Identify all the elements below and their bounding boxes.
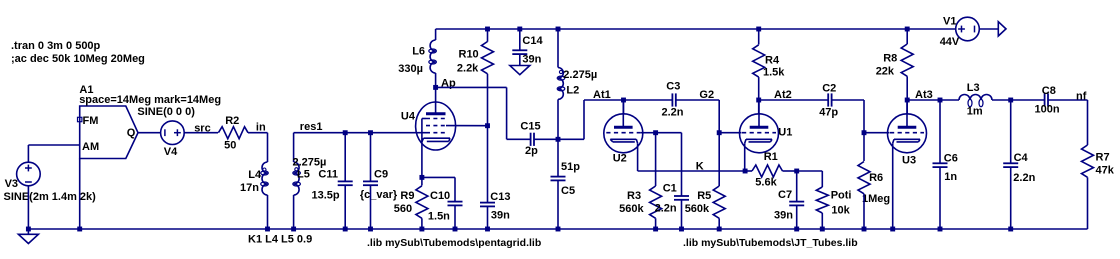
- svg-text:R1: R1: [764, 151, 778, 163]
- svg-text:V3: V3: [5, 178, 18, 190]
- wire C4 bottom lead: [1010, 167, 1012, 229]
- junction At2-U1 anode: [756, 98, 761, 103]
- wire C8 to nf corner: [1048, 99, 1088, 101]
- wire C6 top lead: [939, 100, 941, 163]
- wire tank to At1 horizontal: [558, 138, 584, 140]
- wire B+ top rail: [436, 28, 956, 30]
- wire R6 top lead: [863, 133, 865, 161]
- wire At3 to C6: [907, 99, 940, 101]
- resistor R1: [752, 165, 783, 177]
- wire C11 top lead: [344, 133, 346, 182]
- wire L2 top lead: [557, 29, 559, 68]
- svg-text:U4: U4: [401, 110, 416, 122]
- svg-text:src: src: [194, 123, 211, 135]
- wire G2 vertical: [718, 100, 720, 133]
- junction C6 top node: [938, 98, 943, 103]
- svg-text:1.5k: 1.5k: [763, 67, 785, 79]
- wire R9 bottom lead: [421, 218, 423, 229]
- wire L3 to C4 node: [992, 99, 1011, 101]
- wire C10 top lead: [454, 177, 456, 201]
- wire C10 bottom lead: [454, 205, 456, 229]
- junction C9-ground rail: [368, 227, 373, 232]
- svg-text:At2: At2: [774, 89, 792, 101]
- wire res1 rail: [294, 132, 426, 134]
- junction L3/C4/C8 node: [1008, 98, 1013, 103]
- resistor R5: [713, 186, 725, 218]
- triode U3: [888, 114, 927, 153]
- wire C4 top lead: [1010, 100, 1012, 163]
- wire C13 top lead: [487, 126, 489, 203]
- svg-text:R8: R8: [883, 53, 897, 65]
- wire At1: [584, 99, 624, 101]
- wire C6 bottom lead: [939, 167, 941, 229]
- wire ground rail: [28, 228, 1087, 230]
- svg-text:R7: R7: [1096, 152, 1110, 164]
- svg-text:39n: 39n: [774, 209, 793, 221]
- junction C5-ground rail: [556, 227, 561, 232]
- junction R9-ground rail: [419, 227, 424, 232]
- svg-text:R9: R9: [400, 190, 414, 202]
- wire L6 top lead: [435, 29, 437, 40]
- svg-text:V1: V1: [943, 16, 956, 28]
- potentiometer Poti: [816, 187, 828, 213]
- svg-text:.lib mySub\Tubemods\JT_Tubes.l: .lib mySub\Tubemods\JT_Tubes.lib: [683, 237, 858, 249]
- junction K node: [743, 169, 748, 174]
- svg-text:22k: 22k: [876, 66, 895, 78]
- svg-text:V4: V4: [164, 146, 178, 158]
- svg-text:50: 50: [224, 139, 236, 151]
- svg-text:1.5n: 1.5n: [428, 211, 450, 223]
- wire C3 to G2 corner: [676, 99, 719, 101]
- svg-text:39n: 39n: [522, 54, 541, 66]
- resistor R6: [858, 162, 870, 194]
- svg-text:2.2k: 2.2k: [457, 62, 479, 74]
- junction Ap node: [433, 85, 438, 90]
- resistor R7: [1082, 145, 1094, 177]
- capacitor C4: [1003, 162, 1018, 164]
- wire R1 right lead: [783, 170, 797, 172]
- wire R8 bottom lead: [906, 76, 908, 100]
- capacitor C6: [933, 162, 948, 164]
- wire L2 bottom lead: [557, 99, 559, 139]
- wire L5 bottom lead: [293, 195, 295, 229]
- wire C7 bottom lead: [796, 205, 798, 229]
- svg-text:G2: G2: [699, 89, 714, 101]
- junction C9-res1 rail: [368, 130, 373, 135]
- junction R4-top rail: [756, 27, 761, 32]
- svg-text:in: in: [256, 121, 266, 133]
- svg-text:C9: C9: [374, 169, 388, 181]
- resistor R2: [218, 127, 248, 139]
- svg-text:L3: L3: [967, 82, 980, 94]
- wire U4 anode lead: [435, 87, 437, 113]
- capacitor C5: [551, 176, 566, 178]
- wire V3 top lead: [27, 145, 29, 162]
- junction R3-ground rail: [653, 227, 658, 232]
- wire C11 bottom lead: [344, 185, 346, 229]
- resistor R9: [416, 186, 428, 219]
- wire C7 top lead: [796, 171, 798, 202]
- svg-text:2.2n: 2.2n: [1013, 172, 1035, 184]
- junction R10-top rail: [485, 27, 490, 32]
- junction R6-ground rail: [862, 227, 867, 232]
- wire L6 bottom lead: [435, 73, 437, 87]
- svg-text:{c_var}: {c_var}: [360, 189, 398, 201]
- wire At1 to C3: [624, 99, 673, 101]
- svg-text:C6: C6: [944, 153, 958, 165]
- wire C15 right lead: [534, 138, 558, 140]
- wire Q output: [138, 132, 161, 134]
- wire cathode to C10: [422, 176, 455, 178]
- wire R5 bottom lead: [718, 218, 720, 229]
- junction C11-res1 rail: [343, 130, 348, 135]
- resistor R3: [650, 186, 662, 218]
- wire R7 top lead: [1087, 100, 1089, 145]
- svg-text:C1: C1: [663, 182, 677, 194]
- capacitor C15: [530, 133, 532, 146]
- svg-text:Poti: Poti: [831, 189, 852, 201]
- wire U1 cathode lead: [744, 143, 746, 171]
- svg-text:330µ: 330µ: [398, 63, 423, 75]
- wire to Poti: [797, 170, 823, 172]
- svg-text:10k: 10k: [831, 204, 850, 216]
- svg-text:C13: C13: [490, 191, 510, 203]
- svg-text:res1: res1: [300, 121, 323, 133]
- wire ground stub: [27, 229, 29, 234]
- capacitor C10: [448, 201, 463, 203]
- svg-text:C11: C11: [318, 168, 338, 180]
- wire R4 top lead: [758, 29, 760, 45]
- junction C11-ground rail: [343, 227, 348, 232]
- junction C4-ground rail: [1008, 227, 1013, 232]
- capacitor C11: [338, 180, 353, 182]
- svg-text:R4: R4: [765, 54, 780, 66]
- svg-text:2.275µ: 2.275µ: [563, 69, 597, 81]
- svg-text:5.6k: 5.6k: [755, 176, 777, 188]
- inductor L3: [959, 95, 992, 101]
- svg-text:R10: R10: [459, 49, 479, 61]
- voltage source V1: [956, 17, 980, 41]
- wire R4 bottom lead: [758, 77, 760, 100]
- wire K cathode bus: [638, 170, 746, 172]
- svg-text:.tran 0 3m 0 500p: .tran 0 3m 0 500p: [11, 40, 101, 52]
- svg-text:FM: FM: [83, 115, 99, 127]
- svg-text:SINE(2m 1.4m 2k): SINE(2m 1.4m 2k): [4, 191, 97, 203]
- svg-text:1Meg: 1Meg: [862, 193, 890, 205]
- svg-text:2p: 2p: [525, 145, 538, 157]
- wire Poti bottom lead: [821, 213, 823, 229]
- svg-text:L2: L2: [566, 84, 579, 96]
- wire C2 to U3 grid corner: [832, 99, 864, 101]
- junction Poti-ground rail: [820, 227, 825, 232]
- svg-text:R6: R6: [869, 172, 883, 184]
- wire V4 to R2 (src net): [184, 132, 218, 134]
- junction R5-ground rail: [717, 227, 722, 232]
- wire U3 grid vertical: [863, 100, 865, 133]
- svg-text:AM: AM: [82, 141, 99, 153]
- capacitor C14: [512, 49, 527, 51]
- wire C1 bottom lead: [681, 200, 683, 229]
- svg-text:C14: C14: [522, 35, 543, 47]
- svg-text:SINE(0 0 0): SINE(0 0 0): [137, 106, 195, 118]
- wire C6 to L3: [940, 99, 959, 101]
- svg-text:C10: C10: [430, 190, 450, 202]
- wire U2 grid to C1: [656, 132, 682, 134]
- svg-text:L5: L5: [297, 168, 310, 180]
- capacitor C8: [1044, 93, 1046, 106]
- junction R1/C7/Poti node: [794, 169, 799, 174]
- svg-text:100n: 100n: [1035, 103, 1060, 115]
- wire to C8: [1011, 99, 1045, 101]
- triode U1: [740, 114, 779, 153]
- wire Poti top lead: [821, 171, 823, 187]
- wire C9 top lead: [370, 133, 372, 182]
- ground right of V1: [998, 22, 1006, 36]
- wire R3 bottom lead: [655, 218, 657, 229]
- wire U2 anode lead: [623, 100, 625, 114]
- svg-text:2.2n: 2.2n: [662, 106, 684, 118]
- junction R8-top rail: [905, 27, 910, 32]
- wire L5 top lead: [293, 133, 295, 162]
- svg-text:44V: 44V: [940, 36, 960, 48]
- svg-text:.lib mySub\Tubemods\pentagrid.: .lib mySub\Tubemods\pentagrid.lib: [367, 237, 541, 249]
- wire V3 to AM: [28, 144, 79, 146]
- junction L5-ground rail: [291, 227, 296, 232]
- wire Ap to C15 vertical: [506, 87, 508, 139]
- wire U2 cathode lead: [637, 143, 639, 171]
- capacitor C9: [363, 180, 378, 182]
- svg-text:K1 L4 L5 0.9: K1 L4 L5 0.9: [248, 234, 312, 246]
- wire C5 bottom lead: [557, 180, 559, 229]
- wire U3 grid pin: [864, 132, 890, 134]
- svg-text:17n: 17n: [240, 182, 259, 194]
- junction V3-ground rail: [26, 227, 31, 232]
- svg-text:1m: 1m: [967, 106, 983, 118]
- wire tank to At1 vertical: [583, 100, 585, 139]
- resistor R10: [482, 42, 494, 74]
- wire U1 anode lead: [758, 100, 760, 114]
- wire V1 to ground triangle: [979, 28, 998, 30]
- svg-text:L6: L6: [412, 46, 425, 58]
- svg-text:560k: 560k: [619, 203, 644, 215]
- svg-text:space=14Meg mark=14Meg: space=14Meg mark=14Meg: [79, 94, 221, 106]
- svg-text:2.275µ: 2.275µ: [293, 157, 327, 169]
- svg-text:At3: At3: [915, 89, 933, 101]
- svg-text:C8: C8: [1042, 85, 1056, 97]
- wire L4 top lead: [267, 133, 269, 162]
- svg-text:R5: R5: [697, 190, 711, 202]
- voltage source V3: [17, 162, 41, 186]
- wire C1 top lead: [681, 133, 683, 196]
- wire K to R1: [745, 170, 752, 172]
- svg-text:560: 560: [394, 203, 412, 215]
- wire C14 bottom lead: [519, 54, 521, 65]
- wire C13 bottom lead: [487, 206, 489, 229]
- resistor R8: [901, 44, 913, 76]
- wire R6 bottom lead: [863, 194, 865, 229]
- svg-text:13.5p: 13.5p: [312, 190, 340, 202]
- wire R7 bottom lead: [1087, 177, 1089, 229]
- junction C1-ground rail: [679, 227, 684, 232]
- wire R10 top lead: [487, 29, 489, 42]
- wire Ap to C15 horizontal: [436, 86, 507, 88]
- wire C9 bottom lead: [370, 185, 372, 229]
- svg-text:1n: 1n: [944, 171, 957, 183]
- wire A1 common pin to ground rail: [79, 159, 81, 230]
- wire L4 bottom lead: [267, 195, 269, 229]
- pin FM unconnected marker: [78, 117, 82, 121]
- junction U3 cathode-ground rail: [890, 227, 895, 232]
- capacitor C7: [789, 201, 804, 203]
- junction U1 grid node: [717, 130, 722, 135]
- svg-text:R3: R3: [627, 190, 641, 202]
- junction U3 grid node: [862, 130, 867, 135]
- wire R5 top lead: [718, 133, 720, 186]
- inductor L4: [262, 162, 268, 195]
- svg-text:U1: U1: [778, 126, 792, 138]
- junction C14-top rail: [517, 27, 522, 32]
- svg-text:560k: 560k: [685, 203, 710, 215]
- wire U3 anode lead: [906, 100, 908, 114]
- wire C5 top lead: [557, 139, 559, 176]
- svg-text:C4: C4: [1014, 152, 1029, 164]
- svg-text:C3: C3: [666, 81, 680, 93]
- wire U3 cathode lead: [892, 143, 894, 229]
- resistor R4: [753, 45, 765, 77]
- modulator A1: [80, 106, 138, 159]
- inductor L6: [430, 40, 435, 73]
- capacitor C3: [671, 93, 673, 106]
- wire R3 top lead: [655, 133, 657, 186]
- capacitor C1: [674, 195, 689, 197]
- wire R8 top lead: [906, 29, 908, 44]
- wire R2 to L4 (in net): [248, 132, 268, 134]
- junction At1-U2 anode: [621, 98, 626, 103]
- svg-text:2.2n: 2.2n: [655, 202, 677, 214]
- inductor L5: [294, 162, 300, 195]
- ground under C14: [510, 66, 530, 75]
- wire R9 top lead: [421, 177, 423, 185]
- svg-text:51p: 51p: [561, 161, 580, 173]
- pentagrid tube U4: [416, 102, 456, 150]
- inductor L2: [558, 68, 563, 100]
- junction U4 screen node: [485, 123, 490, 128]
- wire At2 to C2: [759, 99, 829, 101]
- wire C15 left lead: [507, 138, 531, 140]
- svg-text:R2: R2: [225, 115, 239, 127]
- svg-text:Q: Q: [127, 127, 136, 139]
- wire C14 top lead: [519, 29, 521, 50]
- capacitor C13: [480, 202, 495, 204]
- svg-text:U3: U3: [902, 155, 916, 167]
- junction C10-ground rail: [453, 227, 458, 232]
- svg-text:C7: C7: [778, 189, 792, 201]
- svg-text:;ac dec 50k 10Meg 20Meg: ;ac dec 50k 10Meg 20Meg: [11, 53, 145, 65]
- svg-text:nf: nf: [1076, 90, 1087, 102]
- junction U4 cathode node: [419, 175, 424, 180]
- triode U2: [604, 114, 643, 153]
- junction L2-top rail: [556, 27, 561, 32]
- svg-text:47p: 47p: [819, 106, 838, 118]
- svg-text:U2: U2: [613, 152, 627, 164]
- svg-text:L4: L4: [248, 169, 262, 181]
- wire U1 grid pin: [719, 132, 741, 134]
- junction L2/C15/C5 node: [556, 137, 561, 142]
- junction C13-ground rail: [485, 227, 490, 232]
- junction A1 pin-ground rail: [77, 227, 82, 232]
- wire R10 bottom lead: [487, 74, 489, 126]
- ground under V3: [18, 234, 38, 243]
- svg-text:C2: C2: [822, 83, 836, 95]
- junction C7-ground rail: [794, 227, 799, 232]
- wire U4 screen pin: [446, 125, 488, 127]
- svg-text:C15: C15: [520, 121, 540, 133]
- wire U2 grid pin: [640, 132, 655, 134]
- svg-text:47k: 47k: [1096, 165, 1115, 177]
- capacitor C2: [827, 93, 829, 106]
- junction C6-ground rail: [938, 227, 943, 232]
- wire V3 bottom lead: [27, 186, 29, 229]
- voltage source V4: [161, 121, 185, 145]
- junction U2 grid node: [653, 130, 658, 135]
- svg-text:At1: At1: [593, 89, 611, 101]
- svg-text:39n: 39n: [491, 209, 510, 221]
- svg-text:K: K: [696, 160, 704, 172]
- junction At3-U3 anode: [905, 98, 910, 103]
- junction L4-ground rail: [265, 227, 270, 232]
- svg-text:C5: C5: [561, 185, 575, 197]
